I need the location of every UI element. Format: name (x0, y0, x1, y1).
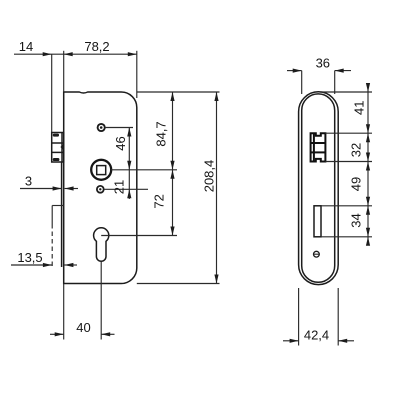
leader from latch cutout bottom (325, 161, 372, 163)
leader from cylinder cutout top (321, 205, 372, 207)
svg-text:14: 14 (19, 39, 33, 54)
dimension 84,7 (154, 92, 175, 170)
dimension 13,5 (11, 250, 77, 267)
latch bolt (side view) (52, 133, 64, 163)
latch head in cutout (front view) (311, 133, 326, 161)
dimension 208,4 (202, 92, 219, 284)
dimension 41 (351, 83, 370, 133)
dimension 3 (faceplate thickness) (20, 174, 78, 191)
right chain dimension line (367, 83, 369, 244)
dimension 46 (113, 128, 131, 170)
svg-text:3: 3 (25, 174, 32, 189)
dimension 36 (287, 56, 351, 95)
svg-text:41: 41 (351, 101, 366, 115)
leader from latch spring hole (105, 127, 133, 129)
svg-text:46: 46 (113, 136, 128, 150)
latch spring hole (98, 124, 105, 131)
svg-text:72: 72 (152, 194, 167, 208)
dimension 40 (backset) (50, 262, 115, 340)
leader from follower centre (111, 169, 177, 171)
dimension 78,2 (64, 39, 137, 98)
svg-text:84,7: 84,7 (154, 121, 169, 146)
leader from cylinder cutout bottom (321, 236, 372, 238)
leader from latch cutout top (325, 132, 372, 134)
fixing hole (97, 186, 104, 193)
svg-text:34: 34 (349, 213, 364, 227)
euro profile cylinder hole (94, 228, 109, 261)
faceplate inner outline (302, 94, 335, 282)
dimension 72 (152, 170, 175, 236)
svg-text:42,4: 42,4 (304, 327, 329, 342)
deadbolt pocket (hidden lines below latch) (52, 206, 64, 268)
svg-text:36: 36 (316, 56, 330, 71)
leader from faceplate top (320, 91, 372, 93)
lock case outline (side view) (64, 92, 137, 284)
leader from cylinder centre (101, 235, 177, 237)
dimension 21 (112, 170, 132, 199)
dimension 34 (349, 206, 371, 246)
follower (square spindle hub) (91, 160, 111, 180)
dimension 14 (14, 39, 64, 56)
faceplate outer outline (front view) (299, 92, 339, 285)
svg-text:13,5: 13,5 (17, 250, 42, 265)
screw hole (front view) (314, 251, 320, 257)
dimension 49 (349, 162, 371, 206)
dimension 32 (349, 133, 371, 161)
bottom edge leader (137, 283, 220, 285)
svg-text:40: 40 (76, 320, 90, 335)
faceplate front edge line (51, 54, 53, 132)
cylinder cutout (front view) (314, 206, 321, 237)
faceplate back line (3mm plate, lower half) (61, 162, 63, 267)
svg-text:21: 21 (112, 180, 127, 194)
dimension 42,4 (283, 288, 354, 346)
svg-text:32: 32 (349, 143, 364, 157)
svg-text:78,2: 78,2 (84, 39, 109, 54)
svg-text:49: 49 (349, 177, 364, 191)
top edge leader (137, 91, 220, 93)
leader from fixing hole (104, 188, 148, 190)
svg-text:208,4: 208,4 (202, 160, 217, 193)
